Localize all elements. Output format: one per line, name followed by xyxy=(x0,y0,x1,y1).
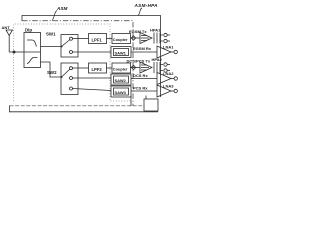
low-pass filter LPF2 xyxy=(89,63,107,73)
SAW filter SAW1 xyxy=(111,47,131,58)
svg-text:SAW2: SAW2 xyxy=(115,78,127,83)
port EGSM Rx out xyxy=(174,50,177,53)
wire Coupler1 to HPA1 xyxy=(131,37,141,39)
SAW filter SAW2 xyxy=(111,74,131,85)
bottom substrate strip xyxy=(10,106,159,112)
wire diplexer to SW1 xyxy=(41,46,62,48)
label HPA2 xyxy=(152,57,163,62)
low-noise amplifier LNA2 xyxy=(157,73,174,85)
port EGSM Tx out 1 xyxy=(164,33,170,36)
svg-text:DCS/PCS Tx: DCS/PCS Tx xyxy=(127,59,151,64)
svg-text:LPF1: LPF1 xyxy=(92,38,103,43)
node EGSM Tx (diamond) xyxy=(131,36,135,40)
low-pass filter LPF1 xyxy=(89,34,107,44)
svg-text:SAW3: SAW3 xyxy=(115,90,127,95)
port DCS/PCS Tx out 1 xyxy=(164,63,170,66)
svg-text:Coupler: Coupler xyxy=(113,37,128,42)
diplexer low-pass curve xyxy=(27,40,37,47)
port DCS Rx out xyxy=(174,77,177,80)
SAW filter SAW3 xyxy=(111,86,131,97)
port PCS Rx out xyxy=(174,89,177,92)
label LNA1 xyxy=(163,45,174,50)
control box bottom-right xyxy=(144,99,158,111)
svg-text:LNA1: LNA1 xyxy=(163,45,174,50)
svg-text:EGSM Tx: EGSM Tx xyxy=(129,29,147,34)
wire SW2 to SAW2 xyxy=(73,77,112,79)
coupler Coupler1 xyxy=(112,34,131,44)
label DCS/PCS Tx xyxy=(127,59,151,64)
svg-text:ASM: ASM xyxy=(56,6,68,11)
low-noise amplifier LNA3 xyxy=(157,85,174,97)
wire Coupler2 to HPA2 xyxy=(131,67,141,69)
node DCS/PCS Tx (diamond) xyxy=(131,65,135,69)
svg-text:SAW1: SAW1 xyxy=(115,51,127,56)
label SW2 xyxy=(47,70,57,75)
leader line ASM xyxy=(52,11,57,21)
svg-text:SW1: SW1 xyxy=(46,32,56,37)
label Dip xyxy=(25,28,32,33)
svg-text:LPF2: LPF2 xyxy=(92,67,103,72)
diplexer Dip xyxy=(24,33,41,68)
antenna ANT xyxy=(6,30,13,52)
ASM dash-dot boundary xyxy=(22,21,133,106)
label ASM xyxy=(56,6,68,11)
wire LPF2 to Coupler2 xyxy=(107,67,113,69)
power amplifier HPA2 xyxy=(140,62,163,73)
label EGSM Rx xyxy=(133,46,152,51)
svg-text:ANT: ANT xyxy=(2,25,11,30)
svg-text:LNA2: LNA2 xyxy=(163,71,174,76)
svg-text:EGSM Rx: EGSM Rx xyxy=(133,46,152,51)
port DCS/PCS Tx out 2 xyxy=(164,69,170,72)
leader line ASM-HPA xyxy=(138,8,142,16)
junction dot xyxy=(13,51,16,54)
svg-text:LNA3: LNA3 xyxy=(163,84,174,89)
wire SW2 to SAW3 xyxy=(73,89,112,91)
wire SW1 to LPF1 xyxy=(73,38,89,40)
wire LPF1 to Coupler1 xyxy=(107,38,113,40)
switch SW1 xyxy=(61,35,79,58)
svg-text:PCS Rx: PCS Rx xyxy=(133,86,148,91)
module ASM-HPA outer boundary (solid) xyxy=(22,16,161,98)
svg-text:ASM-HPA: ASM-HPA xyxy=(134,3,159,8)
svg-text:DCS Rx: DCS Rx xyxy=(133,73,148,78)
wire SAW2 to LNA2 xyxy=(131,78,157,80)
wire control box riser xyxy=(145,96,147,100)
label LNA3 xyxy=(163,84,174,89)
wire SW2 to LPF2 xyxy=(73,67,89,69)
label PCS Rx xyxy=(133,86,148,91)
svg-text:Dip: Dip xyxy=(25,28,32,33)
diplexer high-pass curve xyxy=(27,58,38,64)
wire antenna to diplexer xyxy=(9,51,24,53)
switch SW2 xyxy=(61,63,79,95)
wire SAW3 to strip xyxy=(130,96,132,106)
wire SW1 to SAW1 xyxy=(73,51,112,53)
label HPA1 xyxy=(150,28,161,33)
label ANT xyxy=(2,25,11,30)
power amplifier HPA1 xyxy=(140,33,163,44)
coupler Coupler2 xyxy=(112,63,131,73)
wire diplexer to SW2 xyxy=(41,62,62,77)
svg-text:HPA2: HPA2 xyxy=(152,57,163,62)
port EGSM Tx out 2 xyxy=(164,39,170,42)
wire SAW3 to LNA3 xyxy=(131,90,157,92)
label SW1 xyxy=(46,32,56,37)
label ASM-HPA xyxy=(134,3,159,8)
inner dotted boundary xyxy=(14,24,132,101)
low-noise amplifier LNA1 xyxy=(157,46,174,58)
wire SAW1 to LNA1 xyxy=(131,51,157,53)
label DCS Rx xyxy=(133,73,148,78)
svg-text:Coupler: Coupler xyxy=(113,67,128,72)
diplexer input line xyxy=(24,51,41,53)
svg-text:SW2: SW2 xyxy=(47,70,57,75)
svg-text:HPA1: HPA1 xyxy=(150,28,161,33)
label LNA2 xyxy=(163,71,174,76)
label EGSM Tx xyxy=(129,29,147,34)
